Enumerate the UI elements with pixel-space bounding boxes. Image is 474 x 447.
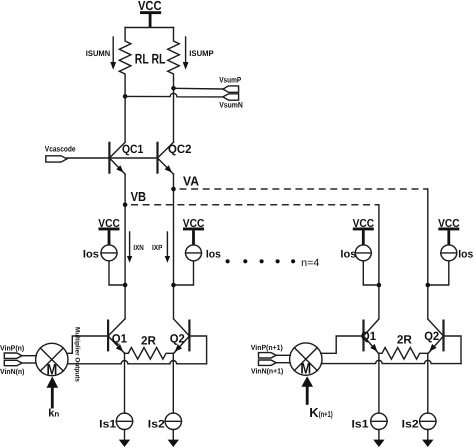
wire multiplier bottom output line (left, with hops)	[68, 360, 207, 363]
VCC symbol (Ios column 2)	[183, 228, 204, 245]
svg-text:Ios: Ios	[458, 248, 473, 260]
transistor QC2	[158, 142, 174, 174]
transistor Q2 (right pair)	[428, 319, 444, 353]
current source Ios 3	[355, 245, 371, 261]
gain arrow K(n+1)	[301, 376, 313, 405]
gain arrow kn	[47, 376, 59, 408]
svg-text:Ios: Ios	[340, 248, 356, 260]
svg-text:Q2: Q2	[170, 331, 185, 345]
wire Ios4 to node	[428, 261, 449, 285]
svg-text:VCC: VCC	[138, 0, 162, 13]
svg-text:VinP(n): VinP(n)	[0, 343, 25, 352]
svg-text:Ios: Ios	[83, 248, 99, 260]
wire tail Q2 to Is2 (right)	[427, 353, 429, 413]
transistor QC1	[109, 142, 125, 174]
wire cascode base	[67, 157, 158, 159]
wire Ios2 to node	[174, 261, 194, 285]
port VinP(n)	[4, 353, 36, 358]
resistor 2R (right)	[379, 348, 428, 360]
svg-text:Q1: Q1	[112, 331, 128, 345]
ground arrow below Is2 (left)	[168, 430, 179, 447]
svg-text:2R: 2R	[141, 334, 156, 348]
node VA	[171, 187, 176, 192]
wire multiplier top output to Q1 base (left)	[67, 336, 108, 353]
transistor Q1 (right pair)	[364, 319, 379, 353]
svg-text:ISUMP: ISUMP	[189, 49, 214, 58]
node VB	[123, 203, 128, 208]
ground arrow below Is1 (right)	[373, 430, 384, 447]
current source Ios 4	[441, 245, 457, 261]
wire QC1 collector	[124, 96, 126, 142]
svg-text:VsumP: VsumP	[219, 76, 242, 85]
svg-text:VA: VA	[183, 174, 200, 189]
svg-text:M: M	[47, 361, 58, 378]
current source Ios 2	[186, 245, 202, 261]
node column1	[123, 283, 128, 288]
wire tail Q1 to Is1 (left)	[124, 353, 126, 413]
wire multiplier bottom output line (right, with hops)	[321, 360, 461, 363]
current source Is1 (left)	[116, 413, 132, 429]
resistor 2R (left)	[125, 348, 174, 360]
svg-text:n=4: n=4	[301, 257, 319, 269]
port VinN(n+1)	[259, 360, 291, 365]
svg-text:kn: kn	[48, 408, 59, 420]
port VinN(n)	[4, 360, 36, 365]
ellipsis dots	[226, 259, 296, 263]
svg-text:2R: 2R	[397, 332, 412, 346]
svg-text:VinN(n): VinN(n)	[0, 367, 25, 376]
wire tail Q2 to Is2 (left)	[172, 353, 174, 413]
svg-text:RL RL: RL RL	[135, 51, 166, 67]
wire to VsumN (hop over right column)	[125, 93, 223, 97]
wire Q2 base jog (right)	[444, 336, 462, 364]
VCC power symbol (top)	[140, 11, 161, 27]
multiplier M (left)	[36, 343, 68, 375]
transistor Q2 (left pair)	[174, 319, 190, 353]
svg-text:Is2: Is2	[148, 418, 165, 430]
transistor Q1 (left pair)	[108, 319, 125, 353]
ground arrow below Is2 (right)	[422, 430, 433, 447]
current arrow IXN	[127, 232, 132, 263]
wire QC2 collector	[173, 88, 175, 142]
svg-text:VsumN: VsumN	[219, 100, 243, 109]
wire QC1 emitter down (left column)	[124, 174, 126, 319]
current arrow ISUMP	[183, 37, 189, 70]
wire VA dashed bus	[180, 188, 428, 190]
svg-text:Is1: Is1	[352, 418, 369, 430]
node (right RL bottom)	[171, 86, 176, 91]
wire Ios3 to node	[363, 261, 379, 285]
current source Is2 (left)	[165, 413, 181, 429]
wire VB dashed bus	[131, 204, 379, 206]
wire multiplier top output to Q1 base (right)	[321, 336, 364, 353]
ground arrow below Is1 (left)	[119, 430, 130, 447]
port VsumP	[223, 86, 239, 92]
port Vcascode	[46, 156, 67, 162]
svg-text:IXN: IXN	[133, 243, 143, 252]
svg-text:VB: VB	[131, 189, 147, 204]
port VsumN	[223, 94, 239, 100]
current arrow ISUMN	[110, 37, 116, 70]
port VinP(n+1)	[259, 353, 291, 358]
svg-text:Is2: Is2	[402, 418, 419, 430]
VCC symbol (Ios column 3)	[353, 228, 374, 245]
VCC symbol (Ios column 4)	[438, 228, 459, 245]
svg-text:Vcascode: Vcascode	[45, 145, 76, 154]
wire VA right drop	[427, 189, 429, 319]
wire VB right drop	[378, 205, 380, 319]
current source Ios 1	[101, 245, 117, 261]
svg-text:IXP: IXP	[152, 243, 162, 252]
wire tail Q1 to Is1 (right)	[378, 353, 380, 413]
multiplier M (right)	[290, 343, 322, 375]
resistor RL (right)	[168, 28, 180, 89]
current source Is2 (right)	[420, 413, 436, 429]
svg-text:VinP(n+1): VinP(n+1)	[251, 343, 283, 352]
wire top rail tee	[125, 27, 173, 29]
svg-text:VinN(n+1): VinN(n+1)	[251, 367, 284, 376]
resistor RL (left)	[119, 28, 131, 97]
wire Q2 base jog (left)	[189, 336, 206, 364]
svg-text:Is1: Is1	[99, 418, 116, 430]
node column2	[171, 283, 176, 288]
svg-text:M: M	[300, 360, 311, 377]
node (left RL bottom)	[123, 94, 128, 99]
current source Is1 (right)	[371, 413, 387, 429]
VCC symbol (Ios column 1)	[99, 228, 120, 245]
current arrow IXP	[165, 232, 170, 263]
svg-text:ISUMN: ISUMN	[86, 49, 111, 58]
wire QC2 emitter down (right column)	[173, 174, 175, 319]
svg-text:QC1: QC1	[122, 142, 144, 156]
svg-text:Multiplier Outputs: Multiplier Outputs	[74, 327, 81, 382]
wire to VsumP	[174, 87, 223, 90]
node column4	[426, 283, 431, 288]
node column3	[377, 283, 382, 288]
svg-text:Ios: Ios	[206, 248, 221, 260]
svg-text:QC2: QC2	[168, 142, 192, 156]
wire Ios1 to node	[109, 261, 125, 285]
svg-text:Q2: Q2	[424, 329, 439, 343]
